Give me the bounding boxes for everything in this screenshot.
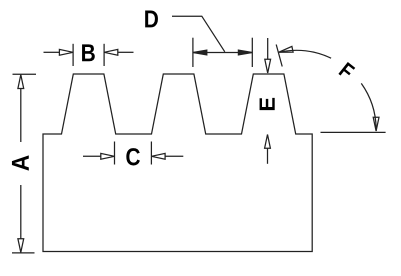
label E (rotated) (260, 98, 275, 110)
dimension B: right open arrowhead (104, 49, 118, 55)
dimension A: extension tick top (13, 73, 37, 75)
dimension C: right open arrowhead (151, 153, 165, 159)
dimension C: left open arrowhead (101, 153, 115, 159)
dimension F: slanted extension line of tooth flank (276, 45, 282, 67)
dimension E: top open arrowhead (down) (265, 59, 271, 73)
dimension C: right extension line (150, 142, 152, 165)
dimension C: left leader shaft (83, 155, 101, 157)
dimension A: open arrowhead down (18, 239, 24, 253)
label B (82, 44, 95, 61)
dimension A: vertical dimension line (gap for label) (20, 88, 22, 239)
dimension C: left extension line (114, 142, 116, 165)
dimension D: dimension line (193, 52, 252, 54)
dimension A: open arrowhead up (18, 75, 24, 89)
label A (rotated) (12, 155, 29, 170)
dimension B: left extension line (72, 44, 74, 66)
label F (rotated 45deg) (338, 62, 355, 80)
dimension B: right extension line (103, 44, 105, 66)
dimension D: left extension line (192, 38, 194, 67)
dimension C: right leader shaft (165, 155, 183, 157)
dimension D: leader line from label (172, 16, 225, 52)
dimension F: open arrowhead at arc start (points left, tilted down) (279, 46, 293, 52)
dimension D: filled arrowhead left (193, 50, 207, 55)
dimension F: open arrowhead at arc end (points down) (373, 117, 379, 131)
label D (145, 11, 158, 28)
dimension D: right extension line (251, 38, 253, 67)
label C (126, 148, 140, 165)
dimension E: top arrow line (267, 38, 269, 60)
rack body outline with three teeth (43, 74, 312, 252)
dimension F: arc (upper segment) (279, 50, 331, 58)
dimension F: horizontal extension line at root level (321, 131, 386, 133)
dimension E: bottom arrow line (267, 149, 269, 164)
dimension D: filled arrowhead right (238, 50, 252, 55)
dimension B: left open arrowhead (59, 49, 73, 55)
dimension B: right leader shaft (118, 51, 133, 53)
dimension B: left leader shaft (44, 51, 60, 53)
dimension A: extension tick bottom (12, 252, 35, 254)
dimension E: bottom open arrowhead (up) (265, 135, 271, 149)
dimension F: arc (lower segment) (361, 83, 376, 131)
